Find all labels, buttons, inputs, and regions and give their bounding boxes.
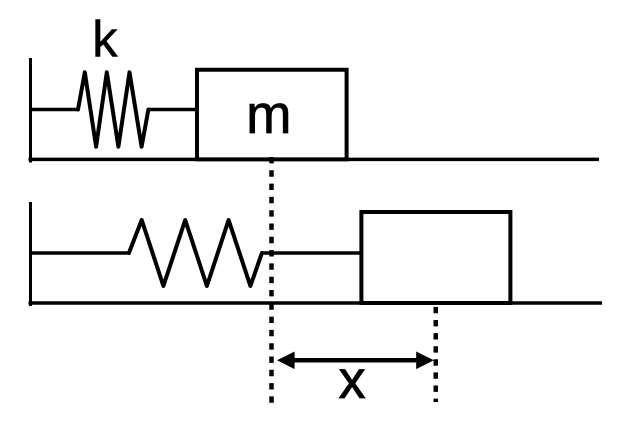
wire: spring to block m (top)	[148, 108, 198, 111]
wire: wall to spring (bottom)	[29, 251, 130, 254]
floor F1 (top)	[29, 158, 600, 162]
wire: wall to spring (top)	[29, 108, 79, 111]
spring k (bottom, stretched zigzag)	[129, 220, 262, 286]
svg-text:k: k	[92, 11, 118, 68]
svg-text:m: m	[246, 84, 291, 145]
displacement arrow shaft	[283, 358, 428, 363]
block (bottom mass, displaced)	[361, 212, 510, 303]
wire: spring to block (bottom)	[262, 251, 364, 254]
arrowhead (right)	[416, 352, 434, 370]
wall W1 (top)	[29, 58, 32, 163]
wall W2 (bottom)	[29, 202, 32, 306]
svg-text:x: x	[339, 350, 366, 410]
dashed line: equilibrium position (center of top block)	[269, 157, 274, 403]
arrowhead (left)	[277, 352, 295, 370]
dashed line: displaced position (center of bottom block)	[434, 307, 439, 402]
floor F2 (bottom)	[29, 301, 603, 305]
spring k (top, relaxed zigzag)	[78, 72, 148, 146]
block m (top mass)	[197, 70, 347, 160]
